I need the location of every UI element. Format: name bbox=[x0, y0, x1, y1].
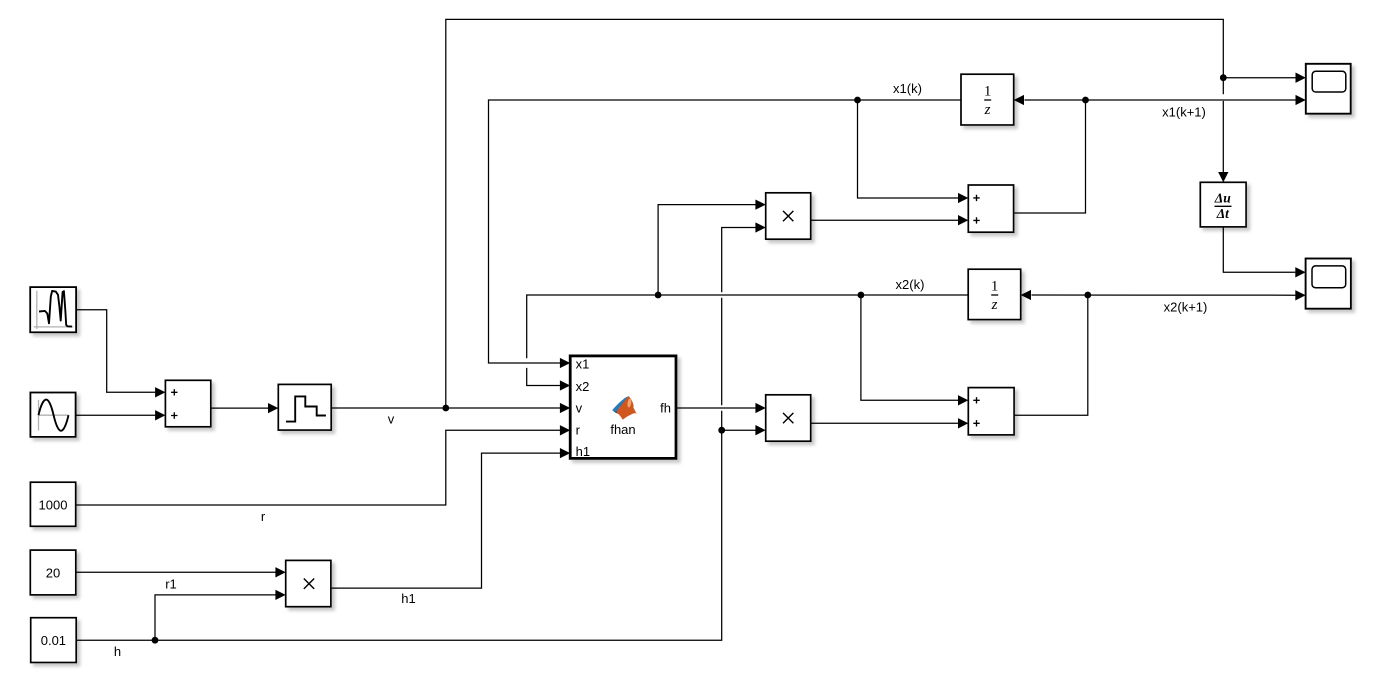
wire: fh output to product lower input 1 bbox=[676, 407, 756, 409]
arrowhead: into Scope1 input 1 bbox=[1296, 73, 1306, 83]
wire: Add lower output loop to x2(k+1) node bbox=[1014, 295, 1088, 415]
svg-text:x1(k): x1(k) bbox=[893, 81, 922, 96]
arrowhead: into Add1 input 1 bbox=[155, 387, 165, 397]
wire: v net, rate limiter to fhan v input bbox=[331, 407, 560, 409]
arrowhead: left into 1/z lower right side bbox=[1021, 290, 1031, 300]
svg-text:x2(k): x2(k) bbox=[896, 277, 925, 292]
unit delay block: 1/z upper bbox=[961, 74, 1014, 125]
arrowhead: into product upper input 1 bbox=[755, 199, 765, 209]
arrowhead: into Scope2 input 1 bbox=[1295, 267, 1305, 277]
svg-text:x1: x1 bbox=[576, 357, 590, 372]
node: x1(k) branch bbox=[854, 97, 861, 104]
arrowhead: into rate limiter bbox=[268, 403, 278, 413]
arrowhead: into Add lower input 1 bbox=[958, 395, 968, 405]
svg-text:1000: 1000 bbox=[39, 498, 68, 513]
svg-text:v: v bbox=[576, 401, 583, 416]
svg-text:1: 1 bbox=[984, 83, 992, 99]
svg-text:r: r bbox=[261, 509, 266, 524]
wire: Add1 output to rate limiter bbox=[211, 407, 268, 409]
wire: product lower output to Add lower input 2 bbox=[811, 422, 958, 424]
node: h branch to product lower bbox=[718, 427, 725, 434]
arrowhead: into fhan h1 bbox=[560, 448, 570, 458]
node: v to scope1 branch bbox=[1220, 74, 1227, 81]
arrowhead: into product lower-left input 1 bbox=[275, 567, 285, 577]
arrowhead: down into Du/Dt top bbox=[1218, 172, 1228, 182]
wire: Add upper output loop to x1(k+1) node bbox=[1014, 100, 1086, 213]
difference block: Du/Dt bbox=[1200, 182, 1246, 227]
arrowhead: into fhan v bbox=[560, 403, 570, 413]
product block: lower-left multiply (r1*h) bbox=[286, 560, 331, 606]
svg-text:h: h bbox=[114, 644, 121, 659]
scope block: Scope2 (right middle) bbox=[1306, 259, 1351, 309]
wire: h branch up to product lower-left input 2 bbox=[155, 595, 276, 640]
product block: upper multiply (h*x2) bbox=[766, 193, 811, 239]
source block: signal-builder waveform source bbox=[30, 287, 76, 332]
sum block: Add1 (left) bbox=[165, 380, 210, 427]
wire: 0.01 h net across the bottom and up to product upper input 2 bbox=[76, 228, 755, 641]
source block: sine wave bbox=[30, 393, 75, 437]
arrowhead: into product lower input 2 bbox=[755, 425, 765, 435]
arrowhead: left into 1/z upper right side bbox=[1014, 95, 1024, 105]
wire: v branch to Scope1 input 1 bbox=[1223, 77, 1295, 79]
svg-text:x1(k+1): x1(k+1) bbox=[1162, 105, 1206, 120]
svg-text:Δt: Δt bbox=[1216, 206, 1230, 221]
wire: x2(k+1) net into 1/z lower and to Scope2 input 2 bbox=[1032, 294, 1296, 296]
wire: x1(k) branch down to Add upper input 1 bbox=[858, 100, 959, 198]
wire: x2(k) net, 1/z lower output to fhan x2 input bbox=[527, 295, 969, 386]
product block: lower multiply (h*fh) bbox=[766, 395, 811, 441]
wire: v loop up and across the top to Du/Dt bbox=[446, 19, 1224, 408]
arrowhead: into fhan r bbox=[560, 425, 570, 435]
wire: x1(k+1) net into 1/z upper and to Scope1 input 2 bbox=[1025, 99, 1296, 101]
arrowheads bbox=[155, 73, 1306, 601]
svg-text:0.01: 0.01 bbox=[41, 633, 66, 648]
svg-text:Δu: Δu bbox=[1214, 190, 1231, 205]
node: x2(k+1) junction bbox=[1084, 292, 1091, 299]
rate-limiter block: stair-step icon bbox=[278, 384, 331, 430]
sum block: Add lower (x2 update) bbox=[968, 388, 1014, 435]
svg-text:z: z bbox=[984, 102, 991, 118]
arrowhead: into Add upper input 1 bbox=[958, 193, 968, 203]
arrowhead: into Scope1 input 2 bbox=[1296, 95, 1306, 105]
svg-text:20: 20 bbox=[46, 565, 60, 580]
svg-text:fhan: fhan bbox=[610, 422, 635, 437]
svg-text:r: r bbox=[576, 423, 581, 438]
constant block: 20 bbox=[30, 550, 76, 595]
unit delay block: 1/z lower bbox=[968, 269, 1021, 319]
node: x2(k) branch to product upper bbox=[655, 292, 662, 299]
wire: x1(k) net, 1/z upper output to fhan x1 input bbox=[489, 100, 962, 363]
arrowhead: into fhan x2 bbox=[560, 380, 570, 390]
wire: product lower-left output h1 to fhan h1 input bbox=[331, 453, 560, 588]
svg-text:1: 1 bbox=[991, 278, 999, 294]
svg-text:r1: r1 bbox=[165, 576, 177, 591]
svg-text:z: z bbox=[991, 297, 998, 313]
svg-text:x2(k+1): x2(k+1) bbox=[1164, 299, 1208, 314]
svg-text:fh: fh bbox=[660, 400, 671, 415]
arrowhead: into Add upper input 2 bbox=[958, 215, 968, 225]
signal name labels bbox=[114, 81, 1207, 659]
MATLAB Function block: fhan bbox=[570, 356, 676, 459]
sum block: Add upper (x1 update) bbox=[968, 185, 1013, 232]
arrowhead: into product lower-left input 2 bbox=[275, 590, 285, 600]
wire: Du/Dt output to Scope2 input 1 bbox=[1223, 227, 1295, 272]
MATLAB logo bbox=[612, 396, 636, 419]
node: x1(k+1) junction bbox=[1082, 97, 1089, 104]
svg-text:x2: x2 bbox=[576, 379, 590, 394]
node: v junction bbox=[442, 405, 449, 412]
wire: sine to Add1 input 2 bbox=[76, 414, 156, 416]
node: h branch to product lower-left bbox=[152, 637, 159, 644]
arrowhead: into product upper input 2 bbox=[755, 222, 765, 232]
arrowhead: into Add lower input 2 bbox=[958, 418, 968, 428]
svg-text:h1: h1 bbox=[576, 444, 590, 459]
constant block: 1000 bbox=[30, 482, 75, 526]
arrowhead: into Scope2 input 2 bbox=[1295, 290, 1305, 300]
node: x2(k) branch to Add lower bbox=[858, 292, 865, 299]
wire: source1 to Add1 input 1 bbox=[76, 310, 155, 393]
wire: 1000 to fhan r input bbox=[76, 430, 560, 505]
scope block: Scope1 (top right) bbox=[1306, 64, 1351, 114]
wire: product upper output to Add upper input 2 bbox=[811, 219, 958, 221]
wire: x2(k) branch up to product upper input 1 bbox=[658, 205, 755, 295]
svg-text:v: v bbox=[388, 411, 395, 426]
wire: 20 to product lower-left input 1 bbox=[76, 571, 276, 573]
arrowhead: into Add1 input 2 bbox=[155, 410, 165, 420]
arrowhead: into fhan x1 bbox=[560, 358, 570, 368]
constant block: 0.01 bbox=[31, 618, 76, 663]
svg-text:h1: h1 bbox=[401, 591, 415, 606]
wire: h branch to product lower input 2 bbox=[722, 429, 756, 431]
wire: x2(k) branch down to Add lower input 1 bbox=[861, 295, 958, 400]
arrowhead: into product lower input 1 bbox=[755, 403, 765, 413]
